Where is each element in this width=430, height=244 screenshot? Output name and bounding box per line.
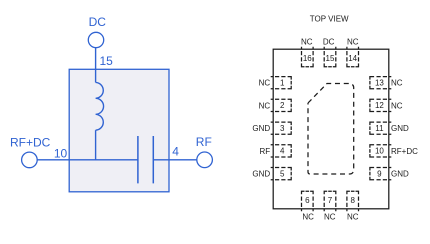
pin 15 pad xyxy=(324,47,336,67)
svg-text:16: 16 xyxy=(303,54,312,63)
svg-text:10: 10 xyxy=(375,147,384,156)
pin 10 pad xyxy=(370,145,391,157)
svg-text:1: 1 xyxy=(280,79,285,88)
pin 9 pad xyxy=(370,168,391,180)
pin 12 pad xyxy=(370,99,391,111)
svg-text:8: 8 xyxy=(350,196,355,205)
pin 1 pad xyxy=(271,77,292,89)
svg-text:4: 4 xyxy=(280,147,285,156)
svg-text:DC: DC xyxy=(323,38,335,47)
svg-text:NC: NC xyxy=(347,213,359,222)
port DC xyxy=(88,32,103,47)
inductor L1 xyxy=(96,82,104,130)
svg-text:GND: GND xyxy=(391,170,409,179)
svg-text:11: 11 xyxy=(375,124,384,133)
port RF+DC xyxy=(22,152,38,168)
pin 8 pad xyxy=(347,191,359,211)
svg-text:2: 2 xyxy=(280,101,285,110)
svg-text:15: 15 xyxy=(326,54,335,63)
svg-text:RF: RF xyxy=(260,147,271,156)
wire inductor to RF+DC line xyxy=(95,130,97,160)
svg-text:9: 9 xyxy=(377,169,382,178)
wire RF+DC port to capacitor C1 xyxy=(37,159,138,161)
svg-text:13: 13 xyxy=(375,79,384,88)
pin 4 pad xyxy=(271,145,292,157)
pin 13 pad xyxy=(370,77,391,89)
port RF xyxy=(197,152,213,168)
svg-text:6: 6 xyxy=(305,196,310,205)
svg-text:10: 10 xyxy=(54,147,68,161)
pin 14 pad xyxy=(347,47,359,67)
svg-text:GND: GND xyxy=(252,170,270,179)
svg-text:DC: DC xyxy=(89,15,107,29)
svg-text:NC: NC xyxy=(391,79,403,88)
svg-text:RF+DC: RF+DC xyxy=(391,147,418,156)
svg-text:15: 15 xyxy=(100,54,114,68)
svg-text:TOP VIEW: TOP VIEW xyxy=(310,15,349,24)
wire DC port to inductor xyxy=(95,48,97,83)
svg-text:NC: NC xyxy=(302,213,314,222)
svg-text:NC: NC xyxy=(391,101,403,110)
bias-tee block outline xyxy=(69,69,169,192)
svg-text:5: 5 xyxy=(280,169,285,178)
svg-text:GND: GND xyxy=(391,124,409,133)
pin 7 pad xyxy=(324,191,336,211)
pin 3 pad xyxy=(271,122,292,134)
svg-text:14: 14 xyxy=(348,54,357,63)
svg-text:7: 7 xyxy=(328,196,333,205)
pin 2 pad xyxy=(271,99,292,111)
svg-text:NC: NC xyxy=(259,101,271,110)
pin 11 pad xyxy=(370,122,391,134)
svg-text:NC: NC xyxy=(347,38,359,47)
exposed pad (die paddle) xyxy=(308,84,354,175)
pin 6 pad xyxy=(302,191,314,211)
package outline xyxy=(273,49,389,209)
svg-text:4: 4 xyxy=(172,144,179,158)
pin 16 pad xyxy=(302,47,314,67)
svg-text:3: 3 xyxy=(280,124,285,133)
svg-text:NC: NC xyxy=(259,79,271,88)
svg-text:RF+DC: RF+DC xyxy=(10,135,51,149)
svg-text:NC: NC xyxy=(324,213,336,222)
svg-text:RF: RF xyxy=(196,135,212,149)
capacitor C1 xyxy=(138,136,153,183)
svg-text:NC: NC xyxy=(301,38,313,47)
svg-text:12: 12 xyxy=(375,101,384,110)
svg-text:GND: GND xyxy=(252,124,270,133)
wire capacitor to RF port xyxy=(153,159,197,161)
pin 5 pad xyxy=(271,168,292,180)
